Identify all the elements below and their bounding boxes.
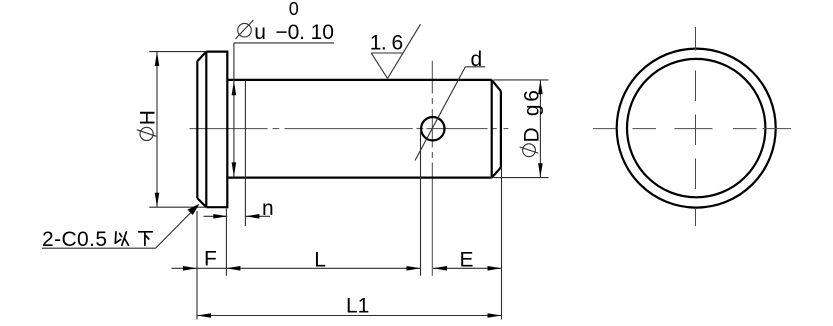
shaft end top chamfer	[492, 80, 501, 91]
dimension phi-H extension line bottom	[149, 206, 205, 208]
svg-text:d: d	[471, 48, 483, 71]
pin head chamfer edge line	[205, 52, 207, 208]
dimension phi-u text underline	[234, 42, 334, 44]
extension line hole left tangent (L)	[420, 130, 422, 276]
dimension E right arrow	[488, 266, 502, 271]
end view outer circle (head diameter)	[617, 49, 776, 208]
chamfer note underline	[42, 247, 156, 249]
surface roughness symbol 1.6 left leg	[371, 53, 387, 79]
hole vertical centerline	[431, 61, 433, 276]
dimension phi-D extension line top	[494, 79, 549, 81]
hole label d landing	[465, 66, 485, 68]
svg-text:H: H	[137, 110, 160, 125]
chamfer note CJK yi (first char of yixia)	[115, 232, 128, 246]
svg-text:−0. 10: −0. 10	[275, 21, 334, 44]
dimension L1 left arrow	[197, 313, 211, 318]
svg-text:L: L	[314, 248, 326, 271]
surface roughness symbol 1.6 bar	[371, 52, 403, 54]
extension line head left face (F and L1)	[196, 211, 198, 320]
dimension phi-H dimension line	[156, 52, 158, 208]
end view horizontal centerline	[593, 128, 791, 130]
surface roughness symbol 1.6 right leg and tail	[388, 24, 421, 78]
svg-text:1. 6: 1. 6	[370, 32, 403, 55]
dimension phi-D dimension line	[539, 80, 541, 178]
pin head bottom edge	[206, 206, 228, 208]
dimension n right extension line	[244, 81, 246, 226]
dimension L1 line	[197, 315, 502, 317]
chamfer note leader arrowhead	[188, 204, 200, 215]
shaft end chamfer start line	[491, 80, 493, 178]
dimension n right tail and arrow	[245, 215, 270, 217]
dimension E left arrow	[433, 266, 447, 271]
svg-text:u: u	[254, 21, 266, 44]
shaft top edge	[227, 79, 491, 81]
hole label d leader	[415, 67, 465, 161]
end view inner circle (head chamfer circle)	[627, 59, 765, 197]
dimension phi-D diameter symbol	[523, 144, 536, 157]
extension line head right face (F and L)	[225, 208, 227, 275]
pin head top-left chamfer	[197, 52, 206, 62]
shaft end bottom chamfer	[492, 168, 501, 178]
dimension phi-H text	[137, 110, 160, 125]
dimension phi-D arrow up	[538, 80, 543, 94]
svg-text:D g6: D g6	[520, 90, 543, 143]
shaft end face	[500, 91, 502, 167]
dimension phi-D arrow down	[538, 163, 543, 177]
dimension phi-H diameter symbol	[140, 127, 153, 140]
svg-text:E: E	[460, 248, 474, 271]
chamfer note CJK xia (second char of yixia)	[139, 232, 153, 246]
dimension phi-u arrow up	[232, 81, 237, 95]
pin head bottom-left chamfer	[197, 198, 206, 207]
dimension phi-H arrow down	[155, 193, 160, 207]
pin head right face	[226, 52, 228, 208]
svg-text:F: F	[204, 247, 217, 270]
dimension phi-u arrow down	[232, 162, 237, 176]
pin head top edge	[206, 50, 228, 52]
svg-text:n: n	[262, 197, 274, 220]
dimension F left outside arrow	[183, 266, 197, 271]
extension line shaft end (E and L1)	[501, 168, 503, 320]
end view vertical centerline	[695, 27, 697, 226]
dimension L right arrow	[407, 266, 421, 271]
pin head left face	[196, 61, 198, 198]
shaft bottom edge	[227, 177, 491, 179]
dimension L1 right arrow	[488, 313, 502, 318]
dimension E line	[433, 267, 502, 269]
dimension F right / L left arrow	[226, 266, 240, 271]
dimension F tail and line	[172, 267, 421, 269]
dimension phi-H arrow up	[155, 52, 160, 66]
dimension n left tail and arrow	[204, 215, 228, 217]
svg-text:2-C0.5: 2-C0.5	[42, 228, 107, 251]
dimension phi-D extension line bottom	[494, 177, 549, 179]
svg-text:0: 0	[289, 0, 299, 19]
dimension phi-D g6 text	[520, 90, 543, 143]
chamfer note leader	[156, 206, 198, 249]
dimension phi-u diameter symbol	[238, 23, 252, 37]
svg-text:L1: L1	[346, 294, 369, 317]
dimension phi-H extension line top	[149, 51, 205, 53]
dimension phi-u dimension line	[233, 43, 235, 177]
cross hole circle	[421, 117, 444, 140]
side view horizontal centerline	[190, 128, 509, 130]
